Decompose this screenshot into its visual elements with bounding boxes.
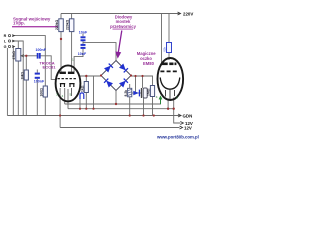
diode D4 lower-right [119,79,128,88]
svg-text:100nF: 100nF [34,79,45,83]
svg-text:1kΩ: 1kΩ [81,85,85,92]
capacitor blue small under tube [80,93,84,99]
wire EM80 anode feed 1 [161,14,163,66]
wire heater rail B [68,109,180,123]
wire branch to bridge top [83,43,116,61]
wire ground rail [7,115,180,117]
wire bridge bottom [115,91,117,105]
wire ECC81 pin to rail B [67,89,69,109]
resistor anode right [84,82,88,93]
resistor R1 220k [59,19,64,32]
diode blue right-pointing [133,90,140,97]
wire ECC81 cathode stubs [71,88,73,96]
diode D1 upper-left [104,64,113,73]
wire grid-leak resistor bottom [25,80,27,116]
capacitor C 10nF lower pair [81,45,86,48]
svg-text:1: 1 [72,58,74,62]
svg-text:4: 4 [62,94,64,98]
resistor R-channel grid [43,86,47,97]
svg-text:3: 3 [56,93,58,97]
text green pin numbers [56,58,178,100]
node GDN arrow [178,114,181,117]
svg-text:www.port80b.com.pl: www.port80b.com.pl [156,135,199,140]
svg-text:220kΩ: 220kΩ [66,19,70,30]
node green arrow EM80 [159,97,162,105]
wire R grid resistor bottom [44,97,46,116]
wire left mystery vertical [6,48,8,116]
wire EM80 anode feed 2 lower [168,53,170,61]
svg-text:1MΩ: 1MΩ [147,88,151,96]
resistor right of bridge [150,86,154,97]
capacitor C 100nF input [38,53,40,59]
svg-text:przetwornicy: przetwornicy [110,24,136,29]
svg-text:62k: 62k [163,46,167,51]
wire anode resistor right bottom lead [85,93,87,109]
wire EM80 anode feed 2 [168,14,170,43]
wire R1 top lead [60,14,62,19]
node 220V arrow [178,12,181,15]
capacitor C 100nF cathode [35,74,40,78]
wire branch bridge-left to rail B [93,76,95,109]
node pot wiper arrow [21,55,24,57]
wire cathode2 drop [64,88,66,104]
wire electrolytic bottom [143,98,145,116]
wire EM80 heater pin [167,99,169,109]
wire mid horizontal [132,92,142,94]
node purple underline input [12,26,58,28]
wire between cap pairs [82,41,84,44]
wire R1 bottom lead to anode 1 [60,32,62,72]
svg-text:ECC81: ECC81 [43,64,57,69]
node ECC81 grid dashes [58,78,77,80]
text purple annotations [13,15,156,70]
svg-text:4: 4 [156,95,158,99]
wire L input [12,41,23,116]
node ECC81 anode bars [60,72,75,74]
wire right resistor bottom [152,97,154,116]
node EM80 anode bars [161,62,176,65]
svg-text:1MΩ: 1MΩ [21,72,25,80]
bridge rectifier diamond [101,61,131,91]
wire cathode1 down [59,88,61,128]
svg-text:12V: 12V [184,125,192,130]
wire R2 top lead [71,14,73,19]
wire EM80 internal stubs [166,89,175,99]
svg-text:1Vpp.: 1Vpp. [13,21,25,26]
svg-text:8,2k: 8,2k [124,90,128,97]
svg-text:10nF: 10nF [79,30,88,34]
wire pot top lead [17,41,19,49]
wire anode resistor right top lead [85,76,87,82]
text rotated resistor values [12,19,151,96]
node 12V arrow 1 [180,122,183,125]
node 12V arrow 2 [180,126,183,129]
resistor R2 220k [69,19,74,32]
node input terminal R [8,35,10,37]
wire EM80 pin 3 [173,98,175,109]
node EM80 grid dashes [160,70,177,72]
svg-text:GDN: GDN [183,113,193,118]
wire top 220V rail [61,13,180,15]
node input terminal L [8,40,10,42]
node EM80 target arc [160,78,180,90]
wire blue part lead [79,99,81,109]
wire bridge left to tube [79,75,102,77]
wire small resistor bottom [129,97,131,116]
wire bridge right output [131,76,153,86]
svg-text:100nF: 100nF [36,48,47,52]
svg-text:100Ω: 100Ω [40,88,44,97]
wire cap bottom to anode2 line [74,49,83,72]
svg-text:220V: 220V [183,11,193,16]
wire coupling cap chain top stub [82,34,84,37]
diode D2 upper-right [119,64,128,73]
node purple underline mostek [113,28,134,30]
svg-text:220kΩ: 220kΩ [55,19,59,30]
wire pot bottom lead [17,61,19,116]
capacitor electrolytic [142,88,148,98]
node terminal arrows [12,35,14,48]
wire R2 bottom lead to anode 2 [71,32,73,72]
wire cathode bypass cap bottom [36,79,38,116]
node junction dots [25,38,175,117]
wire cathode bypass cap top [36,70,38,73]
resistor EM80 anode blue box [167,43,172,53]
wire heater line bottom [60,127,179,129]
wire electrolytic branch [142,76,144,88]
svg-text:G: G [4,45,7,49]
wire R input [12,36,45,86]
svg-text:5: 5 [176,96,178,100]
op EM80 tube envelope [158,58,184,100]
svg-text:47kΩ: 47kΩ [12,51,16,60]
diode D3 lower-left [104,79,113,88]
wire G input [12,47,13,116]
op triode ECC81 tube envelope [56,65,81,101]
svg-text:5: 5 [70,93,72,97]
wire pot wiper to signal [22,55,38,57]
node input terminal G [8,45,10,47]
text blue capacitor labels [34,30,88,83]
wire rail 104 to EM80 [65,99,161,105]
potentiometer volume [16,49,21,62]
wire signal cap to grid bend [40,56,57,80]
node purple arrow to bridge [115,31,122,59]
wire diode branch vertical [135,76,137,93]
capacitor C 10nF upper pair [81,37,86,40]
resistor grid leak [24,70,28,80]
svg-text:10nF: 10nF [78,52,87,56]
wire grid-leak resistor top [25,56,27,70]
svg-text:EM80: EM80 [143,61,155,66]
resistor under bridge hatched [128,88,132,97]
svg-text:R: R [4,34,7,38]
node ECC81 cathodes [60,84,75,87]
wire small resistor under bridge [129,84,131,88]
text labels black [4,11,194,130]
